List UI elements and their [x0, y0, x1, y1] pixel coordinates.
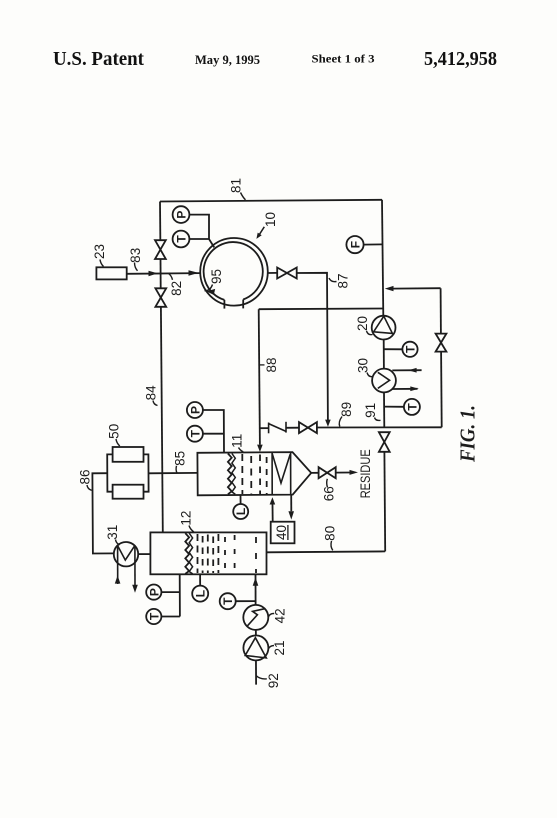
wire line 85: [149, 472, 198, 474]
wire line 81 top edge: [160, 200, 382, 202]
svg-text:81: 81: [229, 178, 244, 193]
svg-text:20: 20: [355, 316, 370, 331]
instrument P tank 12: [146, 585, 161, 600]
svg-text:42: 42: [273, 608, 288, 623]
valve 87: [277, 268, 287, 279]
svg-text:87: 87: [336, 273, 351, 288]
block 50 upper element: [113, 447, 144, 462]
flow arrow into separator 11: [257, 445, 263, 452]
wire tank 12 to exchanger 42: [255, 575, 257, 605]
svg-text:T: T: [405, 403, 419, 411]
valve on line 80 drop: [379, 432, 390, 442]
svg-text:21: 21: [272, 640, 287, 655]
coolant outlet arrow exchanger 30: [393, 388, 418, 390]
svg-text:T: T: [188, 429, 202, 437]
vessel 11 interface band: [228, 454, 232, 495]
wire exchanger 30 down to line 89: [383, 392, 385, 427]
wire between valves: [160, 259, 162, 288]
wire L to vessel 11: [240, 495, 242, 504]
svg-text:82: 82: [169, 281, 184, 296]
wire pump 20 to exchanger 30: [383, 340, 385, 369]
block 50 lower element: [113, 485, 144, 499]
svg-text:T: T: [147, 612, 161, 620]
wire vessel 11 P/T connector: [203, 410, 224, 452]
wire T to pump train: [236, 600, 256, 602]
svg-text:84: 84: [143, 385, 158, 401]
coolant arrow up exchanger 31: [115, 575, 121, 583]
svg-text:40: 40: [274, 525, 289, 540]
svg-text:80: 80: [322, 526, 337, 541]
instrument T top: [173, 231, 190, 248]
svg-text:T: T: [221, 597, 235, 605]
svg-text:83: 83: [128, 248, 143, 263]
wire T to main line: [384, 348, 403, 350]
svg-text:U.S. Patent: U.S. Patent: [53, 48, 144, 70]
reactor outer circle item 10: [200, 238, 268, 306]
reactor inner circle: [204, 242, 263, 300]
wire feed line 92: [255, 660, 257, 684]
svg-text:F: F: [349, 241, 363, 248]
restriction orifice on line 89: [268, 423, 270, 434]
instrument T pump train: [220, 593, 236, 609]
wire feed line 83: [127, 272, 200, 275]
svg-text:5,412,958: 5,412,958: [424, 48, 497, 70]
svg-text:31: 31: [105, 525, 120, 540]
wire exchanger 31 to tank 12: [138, 553, 150, 555]
wire line 86: [92, 473, 114, 553]
wire tank 12 P/T connector: [161, 575, 180, 617]
svg-text:66: 66: [322, 486, 337, 501]
wire right branch vertical upper: [440, 288, 442, 333]
svg-text:10: 10: [263, 212, 278, 227]
valve 66: [319, 467, 328, 478]
tank 12 liquid dashes: [197, 534, 199, 573]
instrument F: [346, 236, 363, 253]
reactor flow direction arrowhead: [206, 289, 215, 295]
svg-text:23: 23: [92, 244, 107, 259]
flow arrow into reactor: [189, 270, 199, 276]
wire box 40 right downcomer with arrow: [290, 495, 292, 511]
svg-text:FIG. 1.: FIG. 1.: [456, 405, 480, 463]
heat exchanger 30: [372, 369, 396, 393]
coolant inlet arrow exchanger 30: [392, 369, 421, 371]
svg-text:88: 88: [264, 357, 279, 372]
coolant arrow down exchanger 31: [132, 585, 138, 593]
instrument T vessel 11: [187, 426, 203, 442]
svg-text:Sheet 1 of 3: Sheet 1 of 3: [312, 52, 375, 66]
tank 12 outline: [150, 532, 266, 574]
wire right branch vertical lower: [440, 352, 443, 428]
block 40: [271, 522, 295, 544]
svg-text:86: 86: [78, 469, 93, 484]
wire line 89 left segment: [260, 427, 269, 429]
wire line 89 right segment: [317, 426, 442, 428]
heat exchanger 42: [243, 605, 268, 630]
wire F to box edge: [364, 243, 383, 245]
svg-text:RESIDUE: RESIDUE: [358, 449, 373, 498]
wire exchanger 42 to pump 21: [255, 630, 257, 635]
flow arrow into tank 12 bottom: [253, 577, 259, 585]
reactor bottom nozzle ticks: [223, 300, 225, 309]
svg-text:P: P: [147, 588, 161, 596]
instrument P vessel 11: [187, 402, 203, 418]
svg-text:12: 12: [179, 511, 194, 526]
svg-text:P: P: [188, 406, 202, 414]
valve 82: [155, 288, 166, 297]
svg-text:11: 11: [230, 434, 245, 448]
valve on right branch: [436, 334, 447, 343]
flow arrow down into line 89: [325, 420, 331, 427]
svg-text:May 9, 1995: May 9, 1995: [195, 52, 260, 67]
wire T to line 91: [384, 406, 404, 408]
instrument T tank 12: [146, 609, 161, 624]
wire item 50 loop: [107, 454, 148, 491]
feed source block 23: [96, 267, 126, 279]
separator vessel 11 outline: [197, 452, 311, 495]
vessel 11 demister element: [272, 452, 291, 495]
wire return line with arrow: [393, 287, 441, 289]
svg-text:91: 91: [363, 403, 378, 418]
svg-text:30: 30: [356, 358, 371, 373]
svg-text:89: 89: [339, 402, 354, 417]
tank 12 interface band: [185, 533, 189, 574]
wire residue line with arrow: [336, 472, 350, 474]
svg-text:P: P: [175, 211, 189, 219]
flow arrow on feed line: [149, 271, 158, 277]
instrument T pump discharge: [402, 342, 417, 357]
wire horizontal to pump suction: [259, 308, 384, 311]
flow arrow into box edge: [385, 286, 394, 291]
instrument L vessel 11: [233, 504, 248, 519]
wire L to tank 12: [199, 575, 201, 586]
wire cone to valve 66: [311, 472, 318, 474]
wire box 40 left riser with arrow: [272, 504, 274, 521]
svg-text:L: L: [194, 590, 208, 597]
wire P/T connector to reactor: [189, 215, 214, 248]
wire line 84 long vertical: [161, 307, 163, 532]
svg-text:50: 50: [107, 424, 122, 439]
svg-text:T: T: [175, 235, 189, 243]
svg-text:92: 92: [266, 673, 281, 688]
wire line 80 horizontal: [267, 550, 385, 553]
wire box 81 right edge: [382, 200, 383, 316]
wire line 80 vertical: [383, 452, 386, 552]
valve on line 89: [299, 422, 308, 433]
svg-text:L: L: [234, 508, 248, 515]
valve top-left on line 83: [155, 240, 166, 249]
vessel 11 liquid dashes: [241, 454, 243, 494]
instrument T line 91: [404, 399, 420, 415]
wire line 89 middle segment: [286, 427, 299, 429]
wire line 88 vertical: [259, 309, 260, 444]
svg-text:85: 85: [172, 451, 187, 466]
pump 21: [243, 635, 268, 660]
svg-text:T: T: [404, 345, 418, 353]
wire reactor to valve 87: [268, 272, 277, 274]
svg-text:95: 95: [209, 269, 224, 284]
heat exchanger 31: [114, 542, 138, 566]
wire box left edge upper: [159, 202, 161, 241]
pump 20: [372, 316, 396, 340]
instrument P top: [173, 206, 190, 223]
wire valve 87 to corner and down: [297, 273, 328, 421]
exchanger 31 coolant lines: [117, 546, 119, 584]
instrument L tank 12: [192, 586, 208, 602]
